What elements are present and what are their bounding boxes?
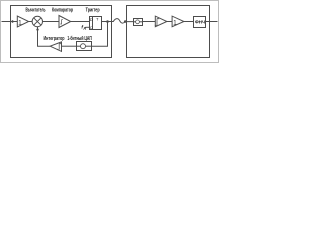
svg-text:Вычитатель: Вычитатель bbox=[26, 8, 46, 14]
svg-text:1-битный ЦАП: 1-битный ЦАП bbox=[67, 35, 92, 42]
svg-text:Триггер: Триггер bbox=[86, 8, 100, 14]
svg-text:Компаратор: Компаратор bbox=[52, 8, 73, 14]
svg-text:ФНЧ: ФНЧ bbox=[195, 20, 205, 25]
svg-text:Интегратор: Интегратор bbox=[44, 36, 65, 42]
svg-text:C: C bbox=[90, 25, 93, 30]
svg-text:D: D bbox=[90, 17, 93, 22]
